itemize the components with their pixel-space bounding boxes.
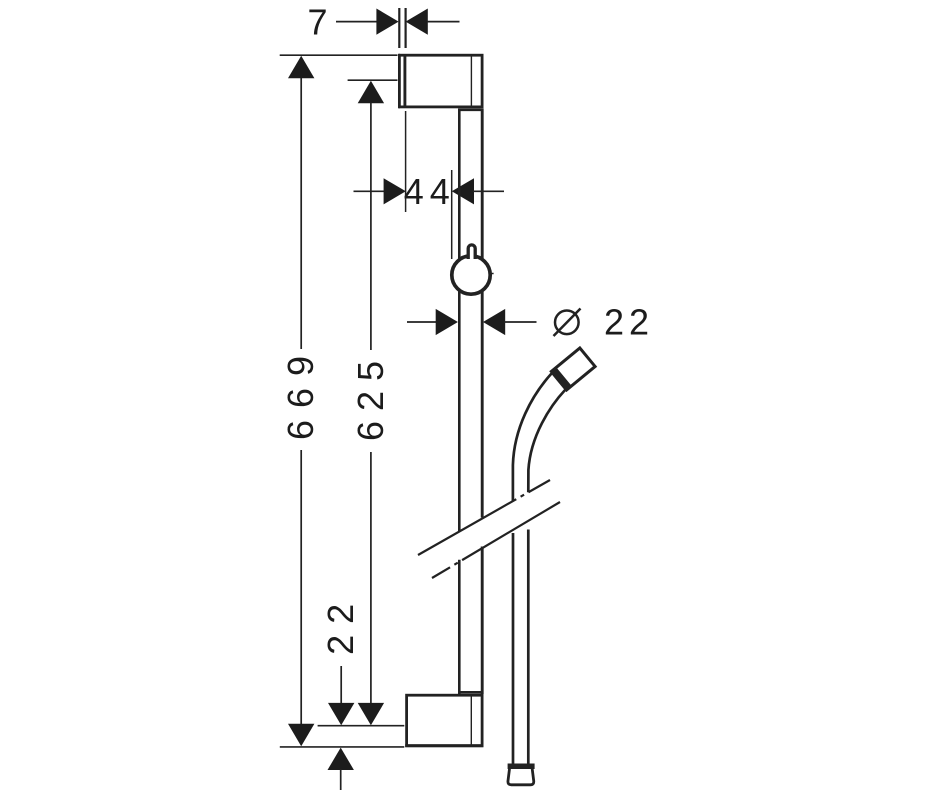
dim 669 top extension line: [280, 54, 398, 56]
rail right line: [481, 109, 484, 695]
rail end extension line: [318, 725, 405, 727]
dim 669 bottom arrow: [288, 724, 314, 746]
dim 22 bottom tail line: [340, 769, 342, 790]
dim 7 extension line a: [398, 8, 400, 48]
dim 22 up arrow: [328, 748, 354, 770]
hose top fitting: [551, 348, 595, 390]
dim 44 left line: [354, 190, 386, 192]
dim 7 left line: [336, 21, 378, 23]
dim 7 right arrow: [406, 9, 428, 35]
bracket bottom extension line: [280, 746, 405, 748]
slider knob: [468, 245, 475, 259]
dim 44 left arrow: [384, 178, 406, 204]
dim 44 right arrow: [452, 178, 474, 204]
break line upper: [418, 480, 550, 555]
svg-text:44: 44: [404, 171, 456, 212]
dim 7 right line: [427, 21, 460, 23]
dim 44 right line: [473, 190, 504, 192]
dim 7 left arrow: [376, 9, 398, 35]
dim 669 vertical line: [300, 78, 302, 724]
dim 44 tangent extension line: [451, 170, 453, 259]
slider circle: [452, 256, 490, 294]
svg-text:7: 7: [307, 2, 327, 43]
dim 22 down arrow: [328, 703, 354, 725]
svg-text:22: 22: [604, 302, 654, 343]
diameter symbol: [554, 309, 581, 337]
dim diameter 22 right line: [504, 321, 537, 323]
dim 625 vertical line: [370, 103, 372, 704]
break line lower: [432, 502, 560, 578]
svg-text:22: 22: [320, 593, 361, 655]
dim diameter 22 left arrow: [436, 309, 458, 335]
dim diameter 22 right arrow: [483, 309, 505, 335]
dim 669 top arrow: [288, 56, 314, 78]
hose upper curve right edge: [528, 390, 565, 493]
bottom wall bracket: [405, 692, 483, 746]
hose lower right edge: [527, 530, 530, 765]
dim 625 top arrow: [358, 81, 384, 103]
dim diameter 22 left line: [407, 321, 437, 323]
dim 625 top extension line: [348, 79, 398, 81]
wall reference line below bracket: [405, 111, 407, 212]
svg-text:625: 625: [350, 351, 391, 441]
dim 7 extension line b: [405, 8, 407, 48]
dim 22 leader line: [340, 666, 342, 703]
dim 625 bottom arrow: [358, 703, 384, 725]
hose bottom fitting collar: [508, 763, 535, 769]
hose bottom fitting: [508, 768, 534, 785]
hose lower left edge: [512, 533, 515, 764]
slider highlight tick: [490, 273, 494, 275]
hose upper curve left edge: [513, 374, 552, 502]
svg-text:669: 669: [280, 344, 321, 440]
top wall bracket: [399, 54, 483, 110]
rail left line: [458, 109, 461, 695]
